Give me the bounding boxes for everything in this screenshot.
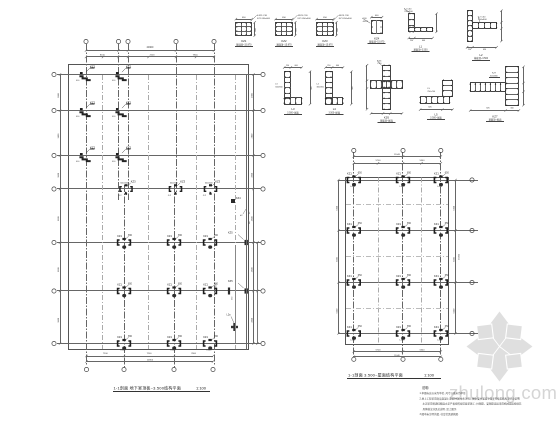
svg-text:650: 650	[445, 325, 450, 328]
svg-text:L400: L400	[171, 350, 177, 352]
svg-text:KZ1: KZ1	[117, 282, 122, 286]
svg-text:7800: 7800	[193, 54, 199, 56]
svg-text:1:100: 1:100	[196, 385, 207, 390]
svg-text:7200: 7200	[150, 54, 156, 56]
svg-text:650: 650	[128, 335, 133, 338]
svg-text:650: 650	[445, 274, 450, 277]
svg-text:L400: L400	[400, 340, 406, 342]
svg-text:KZ2: KZ2	[281, 39, 287, 43]
svg-text:L1 C30: L1 C30	[404, 8, 412, 10]
svg-text:KZ6: KZ6	[384, 116, 390, 120]
svg-text:5340: 5340	[420, 349, 426, 351]
svg-text:5700: 5700	[376, 349, 382, 351]
svg-text:L400: L400	[437, 340, 443, 342]
svg-text:L2 C30: L2 C30	[478, 16, 486, 18]
svg-text:2.地上工程采用商品混凝土浇筑时(图中未注明), 图中梁柱混: 2.地上工程采用商品混凝土浇筑时(图中未注明), 图中梁柱混凝土强度等级见结构设…	[420, 396, 521, 400]
svg-text:KZ1: KZ1	[203, 234, 208, 238]
svg-text:L400: L400	[121, 350, 127, 352]
svg-text:具体做法详见总说明, 见上图示.: 具体做法详见总说明, 见上图示.	[423, 407, 458, 411]
svg-text:KZ1 650x600: KZ1 650x600	[257, 18, 271, 20]
svg-text:L400: L400	[437, 186, 443, 188]
svg-text:4Φ25 C30: 4Φ25 C30	[339, 14, 350, 17]
svg-text:650: 650	[214, 234, 219, 237]
svg-text:250x900: 250x900	[404, 11, 413, 13]
svg-text:KZ1 650x600: KZ1 650x600	[298, 18, 312, 20]
svg-text:4Φ25 C30: 4Φ25 C30	[298, 14, 309, 17]
svg-text:4Φ25 C30: 4Φ25 C30	[257, 14, 268, 17]
svg-text:600x600: 600x600	[120, 183, 129, 185]
svg-text:L2: L2	[479, 53, 483, 57]
svg-text:650: 650	[445, 172, 450, 175]
svg-text:650: 650	[358, 222, 363, 225]
svg-text:KZ1: KZ1	[203, 335, 208, 339]
svg-text:L400: L400	[400, 186, 406, 188]
svg-text:650: 650	[358, 325, 363, 328]
svg-text:KZ1: KZ1	[396, 222, 401, 226]
svg-text:L4: L4	[333, 107, 337, 111]
svg-text:KZ3: KZ3	[322, 39, 328, 43]
svg-text:L400: L400	[350, 340, 356, 342]
svg-text:250: 250	[327, 65, 330, 67]
svg-text:KZ1: KZ1	[167, 234, 172, 238]
svg-text:L400: L400	[350, 186, 356, 188]
svg-text:KZ1: KZ1	[347, 171, 352, 175]
svg-text:L400: L400	[207, 350, 213, 352]
svg-text:7200: 7200	[103, 353, 109, 355]
svg-text:KZ1 650x600: KZ1 650x600	[339, 18, 353, 20]
svg-text:650: 650	[407, 172, 412, 175]
svg-text:1:100: 1:100	[424, 372, 435, 377]
svg-text:KZ1: KZ1	[167, 335, 172, 339]
svg-text:KZ1: KZ1	[347, 325, 352, 329]
svg-text:KZ1: KZ1	[396, 274, 401, 278]
svg-text:650: 650	[407, 274, 412, 277]
svg-text:11040: 11040	[394, 355, 400, 357]
svg-text:L5: L5	[434, 113, 438, 117]
svg-text:650: 650	[178, 335, 183, 338]
svg-text:24900: 24900	[147, 359, 154, 361]
svg-text:KZ3: KZ3	[180, 180, 185, 184]
svg-text:650: 650	[445, 222, 450, 225]
svg-text:650: 650	[407, 222, 412, 225]
svg-text:600x600: 600x600	[170, 183, 179, 185]
svg-text:650: 650	[358, 274, 363, 277]
svg-text:KZ1: KZ1	[434, 222, 439, 226]
svg-text:250x700: 250x700	[427, 91, 436, 93]
svg-text:5700: 5700	[376, 160, 382, 162]
svg-text:250: 250	[286, 65, 289, 67]
svg-text:KZ3: KZ3	[215, 180, 220, 184]
svg-text:KZ1: KZ1	[396, 325, 401, 329]
svg-text:24900: 24900	[147, 46, 154, 49]
svg-text:KZ1: KZ1	[167, 282, 172, 286]
svg-text:300x900: 300x900	[317, 86, 324, 88]
svg-text:5340: 5340	[420, 160, 426, 162]
svg-text:KZ5: KZ5	[228, 280, 233, 283]
svg-text:15300: 15300	[459, 253, 461, 260]
svg-text:KZ1: KZ1	[434, 171, 439, 175]
svg-text:7800: 7800	[191, 353, 197, 355]
svg-text:650: 650	[214, 335, 219, 338]
svg-text:说明:: 说明:	[422, 385, 429, 390]
svg-text:KZ4: KZ4	[236, 197, 241, 200]
svg-text:650: 650	[178, 283, 183, 286]
svg-text:650: 650	[407, 325, 412, 328]
svg-text:KZ1: KZ1	[434, 325, 439, 329]
svg-text:KZ1: KZ1	[434, 274, 439, 278]
svg-text:4Φ22: 4Φ22	[363, 20, 369, 23]
svg-text:KZ1: KZ1	[347, 222, 352, 226]
svg-text:650: 650	[128, 283, 133, 286]
svg-text:KZ3: KZ3	[131, 180, 136, 184]
svg-text:7200: 7200	[147, 353, 153, 355]
svg-text:1-1剖面 地下室顶板~3.500结构平面: 1-1剖面 地下室顶板~3.500结构平面	[114, 384, 181, 390]
svg-text:L2a: L2a	[227, 314, 232, 317]
svg-text:L3: L3	[291, 107, 295, 111]
svg-text:3.图中未注明的梁, 柱定位见建筑图.: 3.图中未注明的梁, 柱定位见建筑图.	[420, 412, 459, 416]
svg-text:650: 650	[178, 234, 183, 237]
svg-text:KZ7: KZ7	[492, 115, 498, 119]
svg-text:KZ1: KZ1	[117, 234, 122, 238]
svg-text:KZ1: KZ1	[347, 274, 352, 278]
svg-text:KZ1: KZ1	[203, 282, 208, 286]
svg-text:11040: 11040	[394, 154, 401, 156]
svg-text:KZ5: KZ5	[228, 232, 233, 235]
svg-text:8100: 8100	[100, 54, 106, 56]
svg-text:KZ1: KZ1	[117, 335, 122, 339]
svg-text:600x600: 600x600	[205, 183, 214, 185]
svg-text:650: 650	[128, 234, 133, 237]
svg-text:水泥采用普通硅酸盐水泥严格按照规范要求施工; 柱钢筋、梁钢筋: 水泥采用普通硅酸盐水泥严格按照规范要求施工; 柱钢筋、梁钢筋连接采用机械连接按规…	[423, 402, 522, 406]
svg-text:300x900: 300x900	[275, 86, 282, 88]
svg-text:650: 650	[358, 172, 363, 175]
svg-text:KZ1: KZ1	[241, 39, 247, 43]
svg-text:L1: L1	[419, 45, 423, 49]
svg-text:600: 600	[336, 65, 339, 67]
svg-text:250x800: 250x800	[478, 19, 487, 21]
svg-text:600: 600	[295, 65, 298, 67]
svg-text:KZ1: KZ1	[396, 171, 401, 175]
svg-text:KZ4: KZ4	[374, 36, 380, 40]
svg-text:1.本图标高以米为单位, 尺寸以毫米为单位.: 1.本图标高以米为单位, 尺寸以毫米为单位.	[420, 391, 467, 395]
svg-text:1-1剖面 3.500~屋面结构平面: 1-1剖面 3.500~屋面结构平面	[348, 371, 403, 377]
